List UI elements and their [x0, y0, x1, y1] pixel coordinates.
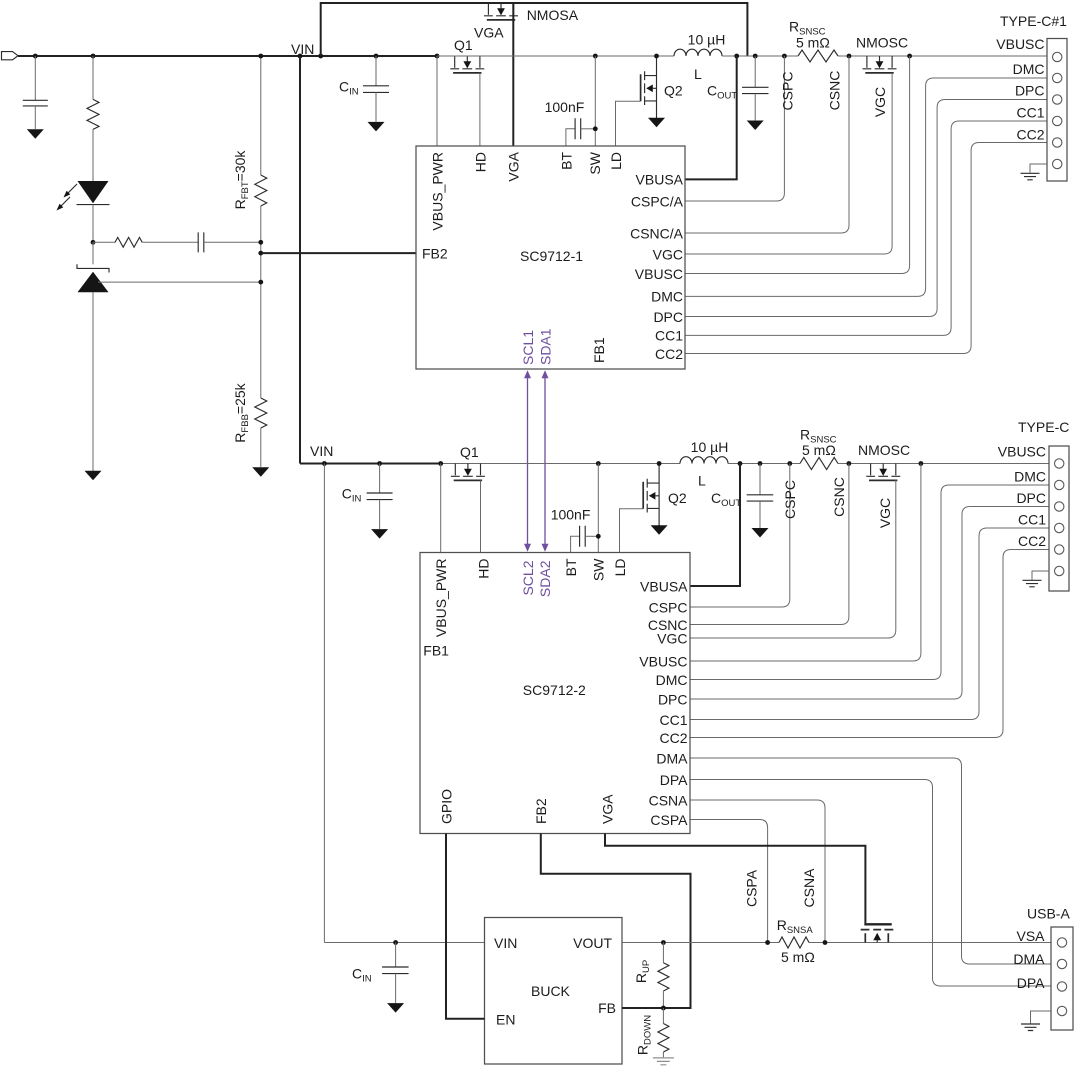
wire CC2 ch1: [685, 143, 1047, 354]
ground arrow (RFBB): [252, 467, 269, 477]
op-amp U2 SC9712-2 body: [420, 553, 690, 834]
svg-text:VBUSC: VBUSC: [998, 444, 1046, 460]
inductor L channel 1 10uH: [674, 49, 722, 56]
wire SCL bus (purple): [527, 378, 529, 545]
wire CSPA sense: [690, 820, 768, 943]
svg-text:Q2: Q2: [664, 83, 683, 99]
svg-text:10 µH: 10 µH: [688, 32, 726, 48]
connector TYPE-C pin 3: [1055, 502, 1064, 511]
wire FB2 net to IC1 (bold): [261, 252, 416, 254]
node VBUSC tap ch1: [907, 54, 912, 59]
svg-text:Q1: Q1: [460, 444, 479, 460]
node VBUS_PWR tap ch1: [435, 54, 440, 59]
svg-text:CSNC: CSNC: [831, 477, 847, 517]
svg-text:CC2: CC2: [1018, 533, 1046, 549]
resistor RSNSC channel 1 5mOhm: [798, 50, 838, 62]
svg-text:LD: LD: [612, 559, 628, 577]
wire VIN channel 2 (bold): [300, 463, 441, 465]
svg-text:FB1: FB1: [591, 337, 607, 363]
svg-text:SCL2: SCL2: [520, 560, 536, 595]
node CIN2 tap: [377, 461, 382, 466]
svg-text:NMOSC: NMOSC: [856, 35, 908, 51]
svg-text:SW: SW: [591, 558, 607, 581]
svg-text:5 mΩ: 5 mΩ: [781, 949, 815, 965]
ground arrow (CIN2): [371, 529, 388, 539]
capacitor bootstrap 100nF ch2: [580, 526, 586, 547]
svg-text:CSNC: CSNC: [827, 71, 843, 111]
svg-text:TYPE-C: TYPE-C: [1018, 419, 1069, 435]
svg-text:NMOSC: NMOSC: [858, 442, 910, 458]
svg-text:VIN: VIN: [494, 935, 517, 951]
svg-text:100nF: 100nF: [545, 99, 585, 115]
svg-text:DMA: DMA: [656, 750, 688, 766]
svg-text:5 mΩ: 5 mΩ: [802, 442, 836, 458]
wire VGC gate ch2: [690, 480, 896, 638]
svg-text:HD: HD: [472, 152, 488, 172]
svg-text:DMC: DMC: [1014, 469, 1046, 485]
wire DPC ch2: [690, 507, 1049, 700]
node CIN1 tap: [374, 54, 379, 59]
connector TYPE-C body: [1049, 446, 1069, 591]
wire VGA gate net (bold): [512, 3, 514, 146]
wire SW node segment ch1: [437, 55, 674, 57]
wire R1 to LED: [92, 129, 94, 181]
connector TYPE-C#1 pin 3: [1053, 95, 1062, 104]
svg-text:VBUSA: VBUSA: [640, 578, 688, 594]
svg-text:SW: SW: [587, 151, 603, 174]
connector TYPE-C#1 pin 1: [1053, 52, 1062, 61]
svg-text:VGC: VGC: [657, 630, 687, 646]
svg-text:L: L: [694, 66, 702, 82]
wire SDA bus (purple): [544, 378, 546, 545]
svg-text:EN: EN: [496, 1012, 515, 1028]
op-amp U1 SC9712-1 body: [416, 146, 685, 369]
node Q2 drain ch1: [654, 54, 659, 59]
ground arrow (Q2 ch2): [651, 525, 668, 535]
ground arrow (Q2 ch1): [648, 118, 665, 128]
connector TYPE-C#1 pin 2: [1053, 73, 1062, 82]
node VBUSC tap ch2: [919, 461, 924, 466]
ground arrow (zener chain): [85, 471, 102, 481]
wire CSNC sense ch2: [690, 464, 849, 625]
node VBUSA tap ch1: [734, 54, 739, 59]
wire SW pin ch1: [594, 56, 596, 146]
connector TYPE-C pin 5: [1055, 545, 1064, 554]
svg-text:CC1: CC1: [655, 328, 683, 344]
wire VBUSC pin ch1: [685, 56, 910, 274]
node divider ref: [258, 280, 263, 285]
wire C2 to divider node: [204, 241, 261, 243]
svg-text:Q1: Q1: [454, 37, 473, 53]
wire SW pin ch2: [597, 464, 599, 553]
svg-text:FB1: FB1: [423, 642, 449, 658]
svg-text:VOUT: VOUT: [573, 935, 612, 951]
node divider top: [258, 54, 263, 59]
node input cap tap: [33, 54, 38, 59]
ground arrow (CIN1): [368, 122, 385, 131]
svg-text:CC1: CC1: [659, 712, 687, 728]
node COUT1 tap: [753, 54, 758, 59]
wire node to zener: [92, 242, 94, 264]
LED light emission arrows: [59, 184, 77, 208]
wire VBUS_PWR pin ch2: [440, 464, 442, 553]
ground arrow (input cap): [27, 129, 44, 139]
resistor RSNSA 5mOhm: [779, 937, 809, 948]
svg-text:VGC: VGC: [653, 246, 683, 262]
svg-text:LD: LD: [608, 152, 624, 170]
svg-text:VBUSC: VBUSC: [996, 36, 1044, 52]
node Q2 drain ch2: [657, 461, 662, 466]
node VIN rail drop: [298, 54, 303, 59]
svg-text:100nF: 100nF: [551, 507, 591, 523]
svg-text:SCL1: SCL1: [520, 330, 536, 365]
svg-text:10 µH: 10 µH: [691, 439, 729, 455]
svg-text:Q2: Q2: [668, 490, 687, 506]
node bottom rail drop: [322, 461, 327, 466]
svg-text:VGA: VGA: [505, 151, 521, 181]
svg-text:VGA: VGA: [599, 794, 615, 824]
wire CC1 ch1: [685, 121, 1047, 335]
capacitor input filter C1: [34, 56, 36, 100]
capacitor CIN channel 1: [375, 56, 377, 86]
resistor RFBT=30k: [260, 56, 262, 175]
node CSNC tap ch2: [847, 461, 852, 466]
node CSNC tap ch1: [847, 54, 852, 59]
ground (RDOWN): [653, 1058, 674, 1065]
wire Q1 gate to HD pin ch2: [480, 480, 482, 552]
connector TYPE-C pin 1: [1055, 459, 1064, 468]
connector TYPE-C pin 4: [1055, 523, 1064, 532]
svg-text:DPC: DPC: [653, 309, 683, 325]
wire zener anode down: [92, 292, 94, 471]
wire BT pin ch1: [566, 129, 575, 146]
svg-text:VBUSA: VBUSA: [636, 172, 684, 188]
transistor Q1 channel 1: [454, 56, 456, 68]
wire R2 to C2: [142, 241, 198, 243]
svg-text:VGC: VGC: [872, 87, 888, 117]
svg-text:VBUS_PWR: VBUS_PWR: [429, 152, 445, 231]
wire FB2 to buck FB (bold): [541, 834, 691, 1009]
wire VBUSA pin ch1 (bold): [685, 56, 737, 179]
svg-text:CC2: CC2: [1016, 127, 1044, 143]
wire CSNC sense ch1: [685, 56, 849, 233]
resistor compensation R2: [93, 241, 115, 243]
transistor USB-A switch: [865, 933, 888, 942]
wire NMOSA bypass top (bold): [321, 3, 748, 56]
connector TYPE-C#1 body: [1047, 39, 1067, 182]
node divider mid cap: [258, 240, 263, 245]
svg-text:CSPC: CSPC: [780, 72, 796, 111]
svg-text:SC9712-1: SC9712-1: [520, 248, 583, 264]
node RUP tap: [661, 940, 666, 945]
wire DPC ch1: [685, 100, 1047, 317]
svg-text:VIN: VIN: [291, 41, 314, 57]
LED optocoupler diode: [78, 181, 109, 203]
svg-text:SC9712-2: SC9712-2: [523, 682, 586, 698]
svg-text:CSPA: CSPA: [650, 812, 688, 828]
op-amp U4 BUCK body: [485, 918, 623, 1065]
resistor RUP: [662, 943, 664, 963]
transistor Q2 channel 1: [656, 56, 658, 118]
capacitor bootstrap 100nF ch1: [575, 118, 581, 139]
wire bootstrap cap to SW ch2: [585, 535, 598, 537]
svg-text:CC2: CC2: [659, 730, 687, 746]
node VBUS_PWR tap ch2: [438, 461, 443, 466]
node NMOSA riser: [318, 54, 323, 59]
wire VBUS_PWR pin ch1: [436, 56, 438, 146]
ground (USB-A): [1031, 1011, 1052, 1024]
svg-text:BT: BT: [563, 558, 579, 576]
wire VBUS segment ch1: [722, 55, 1047, 57]
connector TYPE-C#1 pin 4: [1053, 116, 1062, 125]
connector TYPE-C#1 pin 5: [1053, 138, 1062, 147]
svg-text:NMOSA: NMOSA: [527, 7, 579, 23]
connector TYPE-C pin 2: [1055, 480, 1064, 489]
svg-text:SDA2: SDA2: [537, 560, 553, 597]
wire GPIO to EN (bold): [446, 834, 485, 1019]
wire VGA to USB switch gate (bold): [605, 834, 865, 924]
zener shunt regulator U3: [77, 264, 109, 272]
transistor NMOSA: [487, 3, 489, 15]
wire VBUSC pin ch2: [690, 464, 921, 662]
svg-text:FB2: FB2: [422, 245, 448, 261]
wire CSPC sense ch1: [685, 56, 784, 201]
node divider FB2 tap: [258, 251, 263, 256]
node CSPC tap ch1: [782, 54, 787, 59]
capacitor COUT channel 2: [759, 464, 761, 495]
svg-text:VIN: VIN: [310, 443, 333, 459]
svg-text:5 mΩ: 5 mΩ: [796, 35, 830, 51]
wire BT pin ch2: [571, 536, 580, 552]
svg-text:CC1: CC1: [1016, 105, 1044, 121]
svg-text:USB-A: USB-A: [1027, 906, 1070, 922]
wire VBUSA pin ch2 (bold): [690, 464, 740, 587]
wire CSNA sense: [690, 800, 825, 943]
wire VIN main rail (bold): [18, 55, 437, 57]
capacitor CIN buck: [395, 943, 397, 968]
transistor NMOSC channel 2: [870, 464, 872, 476]
svg-text:VBUSC: VBUSC: [635, 266, 683, 282]
transistor NMOSC channel 1: [866, 56, 868, 68]
wire CC1 ch2: [690, 528, 1049, 720]
wire LED cathode down: [92, 205, 94, 243]
svg-text:CSNA: CSNA: [649, 792, 689, 808]
wire CSPC sense ch2: [690, 464, 790, 608]
wire VBUS segment ch2: [728, 463, 1049, 465]
wire DMC ch2: [690, 485, 1049, 680]
svg-text:DPA: DPA: [660, 772, 688, 788]
svg-text:VGA: VGA: [474, 25, 504, 41]
ground (TYPE-C): [1032, 571, 1049, 580]
node bootstrap junction ch1: [593, 126, 598, 131]
capacitor CIN channel 2: [379, 464, 381, 494]
svg-text:BUCK: BUCK: [531, 983, 571, 999]
node bootstrap junction ch2: [596, 534, 601, 539]
svg-text:FB2: FB2: [533, 798, 549, 824]
svg-text:CC1: CC1: [1018, 512, 1046, 528]
svg-text:VGC: VGC: [877, 498, 893, 528]
wire buck input rail: [324, 942, 484, 944]
node CIN3 tap: [393, 940, 398, 945]
node bias resistor tap: [91, 54, 96, 59]
wire VOUT VSA line: [622, 942, 1051, 944]
svg-text:CSPC/A: CSPC/A: [631, 193, 684, 209]
connector USB-A pin 3: [1057, 982, 1066, 991]
svg-text:DMC: DMC: [1013, 61, 1045, 77]
ground arrow (CIN3): [387, 1003, 404, 1013]
svg-text:DPC: DPC: [658, 691, 688, 707]
node feedback branch: [91, 240, 96, 245]
node SW pin tap ch1: [593, 54, 598, 59]
svg-text:CSPC: CSPC: [649, 599, 688, 615]
input plug connector: [2, 52, 19, 60]
connector TYPE-C#1 pin 6: [1053, 159, 1062, 168]
resistor RFBB=25k: [255, 398, 267, 428]
wire LD pin to Q2 gate ch1: [616, 101, 641, 146]
svg-text:DPA: DPA: [1017, 975, 1045, 991]
svg-text:CSNA: CSNA: [801, 868, 817, 908]
svg-text:DPC: DPC: [1016, 490, 1046, 506]
svg-text:CSNC/A: CSNC/A: [630, 225, 684, 241]
svg-text:GPIO: GPIO: [438, 789, 454, 824]
svg-text:DMC: DMC: [656, 672, 688, 688]
svg-text:VBUSC: VBUSC: [639, 653, 687, 669]
node CSPC tap ch2: [787, 461, 792, 466]
wire VGC gate ch1: [685, 73, 892, 254]
inductor L channel 2 10uH: [680, 457, 728, 464]
node VBUSA tap ch2: [738, 461, 743, 466]
node CSNA tap: [823, 940, 828, 945]
svg-text:HD: HD: [476, 559, 492, 579]
node FB divider: [661, 1006, 666, 1011]
svg-text:L: L: [698, 473, 706, 489]
wire VIN rail to channel 2 (bold): [299, 56, 301, 464]
svg-text:CC2: CC2: [655, 346, 683, 362]
wire DMA ch2: [690, 758, 1051, 964]
capacitor compensation C2: [198, 232, 204, 252]
connector USB-A body: [1051, 927, 1073, 1030]
wire DPA ch2: [690, 780, 1051, 987]
wire zener ref line: [98, 281, 261, 283]
node CSPA tap: [765, 940, 770, 945]
resistor RSNSC channel 2 5mOhm: [800, 458, 838, 470]
svg-text:VSA: VSA: [1016, 928, 1045, 944]
wire SW node segment ch2: [441, 463, 680, 465]
connector USB-A pin 2: [1057, 959, 1066, 968]
wire CC2 ch2: [690, 550, 1049, 738]
connector USB-A pin 4: [1057, 1006, 1066, 1015]
node COUT2 tap: [758, 461, 763, 466]
wire LD pin to Q2 gate ch2: [620, 509, 644, 553]
connector USB-A pin 1: [1057, 938, 1066, 947]
capacitor COUT channel 1: [754, 56, 756, 87]
ground arrow (COUT2): [752, 528, 769, 538]
svg-text:SDA1: SDA1: [538, 328, 554, 365]
svg-text:FB: FB: [598, 1000, 616, 1016]
resistor RDOWN: [662, 1008, 664, 1024]
transistor Q1 channel 2: [454, 464, 456, 476]
svg-text:DPC: DPC: [1015, 83, 1045, 99]
wire Q1 gate to HD pin: [479, 73, 481, 146]
svg-text:BT: BT: [558, 152, 574, 170]
svg-text:DMC: DMC: [651, 289, 683, 305]
node SW pin tap ch2: [596, 461, 601, 466]
svg-text:CSPC: CSPC: [782, 480, 798, 519]
svg-text:TYPE-C#1: TYPE-C#1: [1000, 13, 1067, 29]
transistor Q2 channel 2: [658, 464, 660, 526]
svg-text:VBUS_PWR: VBUS_PWR: [433, 559, 449, 638]
ground (TYPE-C#1): [1030, 164, 1047, 173]
svg-text:DMA: DMA: [1013, 951, 1045, 967]
wire rail to buck section: [323, 464, 325, 943]
wire bootstrap cap to SW ch1: [581, 128, 596, 130]
connector TYPE-C pin 6: [1055, 566, 1064, 575]
svg-text:CSPA: CSPA: [744, 869, 760, 907]
resistor bias R1: [92, 56, 94, 99]
wire DMC ch1: [685, 78, 1047, 296]
ground arrow (COUT1): [747, 121, 764, 131]
